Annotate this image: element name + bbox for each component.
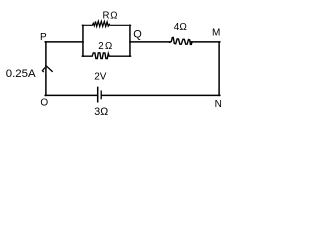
- wire P to parallel box: [45, 41, 83, 43]
- svg-text:2V: 2V: [94, 72, 107, 83]
- resistor R (top branch): [82, 21, 130, 26]
- wire P to O (left vertical): [45, 42, 47, 96]
- wire battery to N: [102, 94, 220, 96]
- svg-text:Q: Q: [133, 28, 142, 40]
- svg-text:N: N: [215, 99, 222, 110]
- parallel box left edge wire: [82, 25, 84, 56]
- svg-text:Ω: Ω: [105, 41, 112, 52]
- svg-text:O: O: [40, 98, 48, 109]
- svg-text:4Ω: 4Ω: [174, 22, 188, 33]
- wire M to N (right vertical): [218, 42, 220, 96]
- svg-text:Ω: Ω: [110, 10, 117, 21]
- wire 4 ohm to M: [191, 41, 220, 43]
- wire O to battery: [45, 94, 97, 96]
- svg-text:3Ω: 3Ω: [94, 106, 108, 118]
- resistor 4 ohm: [170, 37, 192, 44]
- battery cell short plate (negative): [100, 91, 102, 99]
- parallel box right edge wire: [129, 25, 131, 56]
- svg-text:0.25A: 0.25A: [6, 68, 36, 80]
- resistor 2 ohm (bottom branch): [82, 53, 130, 59]
- wire Q to 4 ohm resistor: [130, 41, 170, 43]
- svg-text:R: R: [103, 10, 110, 21]
- battery cell long plate (positive): [97, 87, 99, 101]
- current arrow 0.25A (up): [42, 66, 52, 72]
- svg-text:2: 2: [98, 41, 103, 52]
- svg-text:M: M: [212, 27, 220, 38]
